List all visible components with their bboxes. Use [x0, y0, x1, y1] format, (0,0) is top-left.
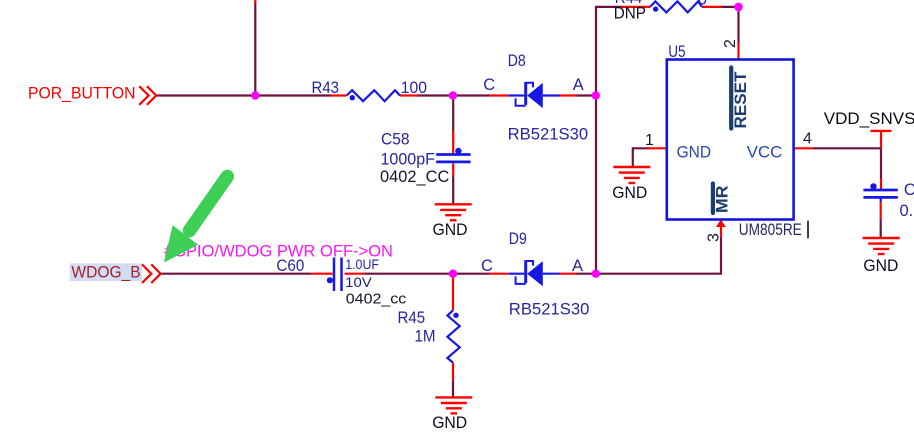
C58 pin1 dot [455, 148, 461, 154]
svg-text:MR: MR [713, 185, 731, 213]
wire vertical into POR_BUTTON net [254, 3, 256, 96]
ground symbol at U5 pin1 [613, 167, 650, 183]
pin stub C59 bottom [880, 202, 882, 219]
svg-text:A: A [572, 257, 583, 275]
svg-text:1: 1 [645, 132, 654, 149]
svg-text:RB521S30: RB521S30 [508, 126, 589, 144]
ground symbol at C59 [863, 238, 900, 254]
svg-text:4: 4 [803, 130, 812, 147]
pin stub U5 pin4 [793, 147, 813, 149]
pin stub C58 top [452, 131, 454, 153]
R44 pin1 dot [653, 6, 658, 11]
svg-text:GND: GND [863, 257, 898, 275]
junction dot R44/pin2 [734, 3, 743, 12]
text cursor [807, 221, 809, 239]
svg-text:WDOG_B: WDOG_B [71, 263, 140, 282]
svg-text:U5: U5 [668, 43, 685, 61]
wire vertical rail D8/D9 anodes [595, 7, 597, 274]
power symbol VDD_SNVS bar [871, 130, 892, 132]
svg-text:VDD_SNVS_: VDD_SNVS_ [824, 109, 914, 128]
wire R44 row [595, 7, 739, 43]
svg-text:RB521S30: RB521S30 [509, 301, 590, 319]
diode D9 schottky [508, 260, 559, 286]
pin stub C59 top [880, 179, 882, 190]
pin stub U5 pin3 [720, 227, 722, 238]
capacitor C58 [436, 155, 470, 162]
junction dot POR/vertical [251, 91, 259, 99]
pin stub U5 pin1 [647, 147, 667, 149]
port WDOG_B highlight [70, 263, 142, 281]
C59 pin1 dot [870, 183, 876, 189]
svg-text:GND: GND [433, 221, 468, 239]
pin stub C60 left [312, 273, 333, 275]
pin stub R44 right [702, 6, 722, 8]
pin name MR (rotated, with overline) [713, 184, 731, 214]
svg-text:GND: GND [612, 184, 647, 202]
svg-text:C58: C58 [381, 131, 410, 149]
C60 pin1 dot [327, 277, 333, 283]
IC U5 box [667, 60, 794, 220]
pin stub U5 pin2 [737, 43, 739, 60]
diode D8 schottky [508, 82, 559, 108]
wire POR_BUTTON horizontal [156, 94, 597, 96]
wire R45 branch to GND [452, 381, 454, 398]
pin stub POR vertical top [254, 0, 256, 3]
svg-text:C: C [481, 257, 493, 275]
capacitor C59 [863, 190, 897, 197]
svg-text:R45: R45 [398, 309, 426, 327]
svg-text:DNP: DNP [614, 5, 646, 23]
svg-text:1000pF: 1000pF [381, 150, 436, 168]
svg-text:UM805RE: UM805RE [739, 221, 802, 239]
R45 pin1 dot [453, 313, 458, 318]
wire U5 pin1 to GND [633, 148, 649, 167]
resistor R43 [347, 90, 400, 101]
pin stub D8 cathode [489, 94, 508, 96]
junction dot D9 anode [592, 270, 600, 278]
svg-text:C59: C59 [904, 181, 914, 199]
pin stub VDD power symbol [880, 132, 882, 148]
svg-text:RESET: RESET [732, 72, 750, 129]
resistor R45 [447, 310, 459, 362]
capacitor C60 [334, 258, 342, 292]
svg-text:R43: R43 [312, 79, 340, 97]
pin stub C58 bottom [452, 163, 454, 176]
junction dot R43/C58 [449, 91, 457, 99]
pin stub R45 top [452, 276, 454, 310]
pin stub R44 left [621, 6, 650, 8]
pin stub C60 right [345, 273, 365, 275]
svg-text:3: 3 [706, 233, 723, 242]
wire U5 pin4 to VDD_SNVS and C59 [813, 148, 881, 237]
svg-text:#GPIO/WDOG PWR OFF->ON: #GPIO/WDOG PWR OFF->ON [164, 241, 393, 260]
port WDOG_B chevron [142, 264, 161, 283]
svg-text:0.1UF: 0.1UF [900, 202, 914, 220]
svg-text:0402_CC: 0402_CC [380, 168, 449, 186]
wire WDOG_B row [161, 237, 722, 274]
ground symbol at C58 [435, 204, 472, 220]
pin name RESET (rotated, with overline) [731, 68, 750, 129]
R43 pin1 dot [350, 95, 355, 100]
resistor R44 (DNP) [650, 1, 702, 12]
pin stub D8 anode [559, 94, 577, 96]
junction dot D8 anode [592, 91, 600, 99]
pin stub R43 left [331, 94, 347, 96]
pin stub R45 bottom [452, 363, 454, 381]
pin3 arrowhead [716, 219, 726, 227]
pin stub D9 anode [559, 273, 577, 275]
svg-text:C: C [483, 76, 495, 94]
svg-text:D9: D9 [509, 230, 527, 248]
svg-text:GND: GND [677, 143, 712, 161]
pin stubs red segments [255, 0, 881, 381]
wire C58 branch [452, 96, 454, 205]
svg-text:2: 2 [722, 39, 739, 48]
svg-text:GND: GND [432, 414, 467, 432]
pin stub R43 right [400, 94, 419, 96]
green annotation arrow [164, 177, 227, 263]
svg-text:POR_BUTTON: POR_BUTTON [28, 84, 136, 103]
svg-text:1M: 1M [415, 328, 436, 346]
svg-text:0: 0 [698, 0, 707, 9]
svg-text:D8: D8 [508, 52, 526, 70]
svg-text:VCC: VCC [747, 143, 782, 161]
ground symbol at R45 [435, 397, 472, 413]
svg-text:100: 100 [401, 79, 427, 97]
svg-text:0402_cc: 0402_cc [346, 291, 407, 308]
svg-text:10V: 10V [345, 274, 372, 290]
pin stub D9 cathode [489, 273, 508, 275]
C59 blue stub [880, 197, 882, 201]
port POR_BUTTON chevron [139, 86, 156, 105]
svg-text:A: A [573, 76, 584, 94]
junction dot C60/R45 [449, 270, 457, 278]
